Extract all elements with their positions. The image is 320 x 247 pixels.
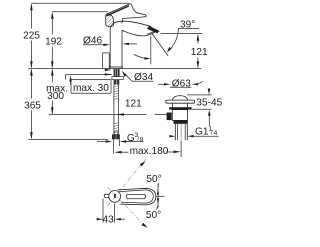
dimension max300 [46,69,68,115]
ref line waste top [187,94,212,96]
svg-text:50°: 50° [146,210,161,221]
waste dome [172,96,188,101]
label Ø63 [158,78,203,89]
svg-text:365: 365 [24,100,41,111]
jet direction line [152,34,168,56]
ref line top 192 [52,11,108,13]
swing range arrows [157,184,159,209]
G38 nut [112,134,120,139]
faucet body right edge [121,30,123,68]
svg-text:4: 4 [214,130,218,137]
stream arrow [134,54,151,59]
top view pivot circle [109,191,121,203]
svg-text:max.180: max.180 [130,146,169,157]
svg-text:43: 43 [103,215,115,226]
dimension 35-45 [196,89,222,127]
faucet body left edge [109,28,111,69]
svg-text:G1: G1 [195,126,209,137]
top view axis line [156,195,164,197]
label Ø46 [83,36,137,47]
svg-text:121: 121 [125,99,142,110]
threaded rod [114,85,119,135]
label max. 30 [69,69,111,94]
dimension max180 [114,146,181,157]
dimension 225 [23,3,40,68]
faucet handle cap [106,14,114,26]
faucet body dome and spout top [110,21,151,28]
shank threaded [114,69,120,77]
top view nub [104,194,109,197]
svg-text:Ø63: Ø63 [172,78,191,89]
svg-text:192: 192 [45,37,62,48]
dimension 192 [45,12,62,69]
waste locknut bottom [174,120,188,123]
jet vertical reference [150,36,152,65]
ref line top 225 [31,2,129,4]
top view lever inner [119,190,153,203]
dimension 43 [97,199,125,226]
washer [112,77,123,80]
waste tailpipe [175,124,187,140]
label Ø34 [122,71,154,83]
dashed swing line lower [108,188,148,228]
svg-text:8: 8 [140,136,144,143]
waste side port [167,113,172,121]
label G1 1/4 [169,126,218,138]
svg-text:121: 121 [191,47,208,58]
dashed swing line upper [108,159,146,206]
svg-text:300: 300 [47,91,64,102]
label G38 [97,132,144,144]
waste dark bar [169,107,191,109]
ref line waste flange underside [192,108,212,110]
hose stub below nut [114,139,120,153]
ref line bottom 365 [28,138,107,140]
deck underside line max30 [66,75,112,80]
label 50 bottom [146,207,161,222]
centerline max300 / dimension 121 mid [49,99,167,116]
spout underside [122,30,156,36]
waste centerline [180,124,182,157]
svg-text:225: 225 [23,31,40,42]
spout tip wedge [147,26,160,33]
svg-text:50°: 50° [146,174,161,185]
faucet lever blade [106,4,146,19]
svg-text:max. 30: max. 30 [73,83,109,94]
G38 nut cap [114,132,118,134]
faucet neck edge [121,19,124,24]
waste neck [173,103,188,107]
top view lever outer [118,188,156,205]
label 39 degrees [167,19,199,52]
waste flange [166,100,195,103]
waste body [172,110,187,121]
dimension 121 right [161,34,209,69]
dimension 365 [24,69,41,140]
faucet base [109,66,123,68]
top view lever slot [126,194,145,198]
nut below washer [114,80,120,85]
rear box at base [103,53,110,69]
svg-text:35-45: 35-45 [196,97,222,108]
label 50 top [146,174,161,187]
deck line [28,68,201,70]
